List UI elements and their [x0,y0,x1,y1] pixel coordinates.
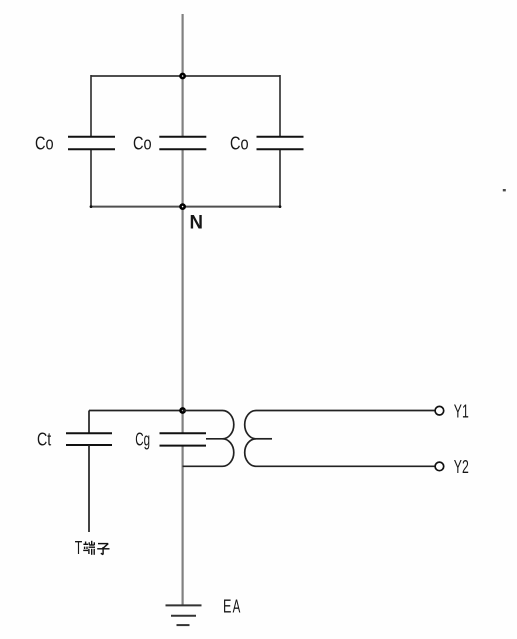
ground EA symbol [166,605,202,625]
wire: Ct upper vertical [88,411,90,434]
kanji 端 [83,541,95,555]
wire: left branch verticals [90,75,92,207]
node N junction [181,205,185,209]
capacitor Co (right) [257,137,304,150]
svg-text:A: A [233,596,241,617]
node: bottom-right corner dot [279,205,282,208]
svg-text:N: N [190,211,204,233]
kanji 子 [97,544,109,555]
terminal Y1 [435,406,444,415]
wire: main vertical middle (rail to Cg top plate) [182,150,184,433]
terminal Y2 [435,462,444,471]
svg-text:Y2: Y2 [454,456,469,477]
capacitor Cg [160,433,207,445]
transformer primary winding (left, two right-facing arcs) [183,411,234,467]
stray dot artifact right side [503,189,506,191]
svg-text:Cg: Cg [135,428,150,449]
node: top junction [181,74,185,78]
wire: lower branch horizontal (junction to Ct) [89,410,183,412]
svg-text:T: T [75,537,83,558]
capacitor Co (middle) [159,137,206,150]
transformer secondary winding (right, two left-facing arcs) [245,411,435,467]
svg-text:Ct: Ct [37,428,51,449]
svg-text:Y1: Y1 [454,400,469,421]
wire: Ct lower vertical (T terminal lead) [88,445,90,532]
wire: main vertical lower (Cg bottom to ground) [182,446,184,606]
capacitor Ct [66,433,112,445]
node: lower junction [181,408,185,412]
svg-text:Co: Co [133,133,152,154]
svg-text:Co: Co [230,133,249,154]
capacitor Co (left) [68,137,115,150]
wire: right branch verticals [279,75,281,207]
svg-text:E: E [223,596,231,617]
node: bottom-left corner dot [90,205,93,208]
wire: top rail [91,75,280,77]
wire: bottom rail [91,206,280,208]
wire: main vertical top feed [182,14,184,136]
svg-text:Co: Co [35,133,54,154]
